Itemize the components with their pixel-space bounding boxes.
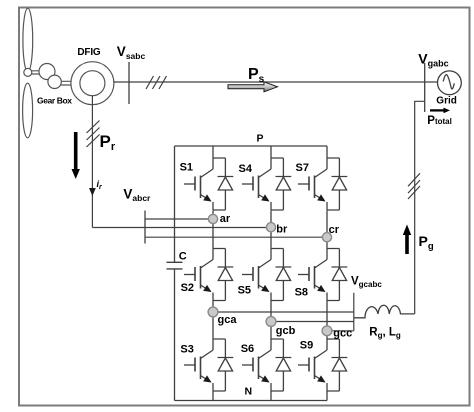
svg-text:C: C (179, 250, 187, 262)
svg-text:ir: ir (97, 179, 104, 191)
svg-text:gcb: gcb (276, 325, 296, 337)
svg-text:DFIG: DFIG (77, 47, 101, 58)
svg-text:Grid: Grid (436, 96, 457, 107)
svg-text:gca: gca (218, 314, 238, 326)
svg-text:P: P (257, 133, 264, 145)
svg-text:S4: S4 (239, 163, 253, 175)
svg-text:S9: S9 (300, 340, 313, 352)
svg-text:Vsabc: Vsabc (117, 44, 146, 61)
svg-text:S5: S5 (238, 285, 251, 297)
svg-text:S2: S2 (181, 282, 194, 294)
svg-text:S1: S1 (180, 161, 193, 173)
svg-text:S7: S7 (296, 162, 309, 174)
svg-text:Rg, Lg: Rg, Lg (369, 326, 401, 340)
svg-text:Ps: Ps (248, 66, 265, 85)
svg-text:Pg: Pg (419, 233, 434, 252)
svg-text:Vabcr: Vabcr (123, 186, 151, 203)
svg-text:Gear Box: Gear Box (37, 96, 72, 106)
svg-text:Pr: Pr (100, 132, 116, 153)
svg-text:Ptotal: Ptotal (427, 115, 452, 127)
svg-text:S8: S8 (295, 287, 308, 299)
svg-text:ar: ar (220, 213, 231, 225)
svg-text:Vgabc: Vgabc (418, 51, 448, 69)
svg-text:N: N (245, 386, 253, 398)
svg-text:cr: cr (329, 224, 340, 236)
svg-text:S3: S3 (180, 344, 193, 356)
svg-text:gcc: gcc (333, 327, 352, 339)
svg-text:Vgcabc: Vgcabc (351, 276, 382, 290)
svg-text:br: br (276, 224, 288, 236)
svg-text:S6: S6 (241, 343, 254, 355)
